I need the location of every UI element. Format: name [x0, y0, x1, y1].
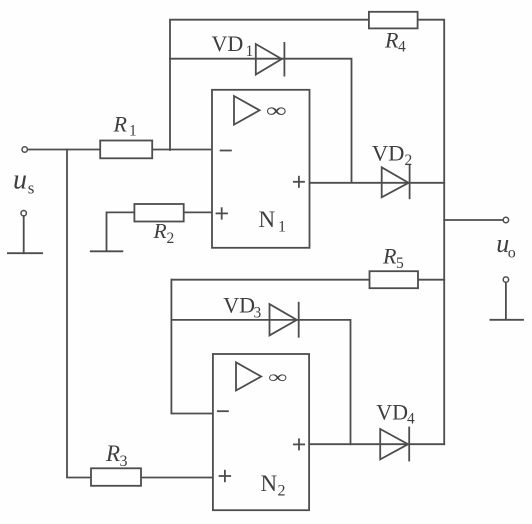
svg-text:4: 4	[398, 38, 406, 55]
label R3	[105, 441, 128, 470]
wire: input vertical down to R3	[67, 150, 213, 478]
svg-text:5: 5	[396, 255, 404, 272]
ground: left source ground	[8, 211, 42, 254]
svg-text:4: 4	[407, 410, 415, 427]
wire: output tap to uo terminal	[444, 219, 503, 221]
ground: R2 ground	[91, 250, 123, 252]
pin: N2 output plus sign	[294, 439, 304, 449]
resistor R2	[134, 204, 183, 222]
op-amp U1 triangle symbol	[234, 96, 260, 125]
node: us input terminal	[22, 147, 27, 152]
label infinity N2	[268, 367, 287, 387]
svg-text:VD: VD	[223, 292, 255, 317]
label R1	[113, 112, 137, 140]
svg-text:2: 2	[278, 483, 286, 500]
wire: R2 branch to N1 non-inverting input	[107, 212, 213, 251]
pin: N2 non-inverting input plus sign	[220, 471, 231, 482]
label infinity N1	[266, 100, 287, 122]
resistor R3	[91, 468, 141, 486]
svg-text:∞: ∞	[266, 100, 287, 122]
resistor R4	[369, 12, 418, 29]
svg-text:R: R	[382, 244, 397, 269]
label us	[13, 165, 34, 198]
svg-text:N: N	[261, 471, 278, 496]
label R4	[384, 28, 406, 56]
svg-text:3: 3	[120, 453, 128, 470]
svg-text:∞: ∞	[268, 367, 287, 387]
diode VD2	[382, 165, 410, 198]
label uo	[496, 229, 516, 262]
diode VD3	[270, 303, 299, 337]
svg-text:3: 3	[254, 305, 262, 322]
resistor R5	[370, 271, 419, 288]
pin: N2 inverting input minus sign	[218, 410, 228, 412]
svg-text:R: R	[113, 112, 128, 137]
svg-text:u: u	[13, 165, 27, 196]
svg-text:VD: VD	[376, 400, 408, 425]
label VD3	[223, 292, 261, 321]
svg-text:R: R	[105, 441, 120, 466]
wire: top feedback wire from node A to R4 and right bus	[170, 20, 444, 445]
label VD2	[372, 140, 412, 169]
wire: N2 output to VD4 and right bus	[309, 443, 444, 445]
svg-text:1: 1	[129, 123, 137, 140]
svg-text:2: 2	[405, 152, 413, 169]
svg-text:N: N	[259, 207, 276, 232]
wire: N1 output to VD2 and right bus	[310, 182, 445, 184]
label R2	[153, 219, 175, 247]
pin: N1 non-inverting input plus sign	[217, 208, 228, 219]
label VD4	[376, 400, 415, 428]
wire: VD3 anode wire	[171, 320, 350, 444]
label R5	[382, 244, 404, 273]
ground: right output ground	[490, 277, 523, 320]
svg-text:o: o	[508, 245, 516, 262]
svg-text:1: 1	[278, 219, 286, 236]
svg-text:VD: VD	[372, 140, 405, 165]
svg-text:s: s	[28, 179, 35, 198]
label N1	[259, 207, 287, 236]
svg-text:R: R	[153, 219, 167, 243]
op-amp U2 box N2	[213, 354, 309, 510]
node: uo output terminal	[503, 217, 508, 222]
wire: R5 feedback wire lower stage	[171, 279, 444, 281]
diode VD1	[256, 43, 285, 76]
diode VD4	[380, 428, 409, 461]
label N2	[261, 471, 286, 500]
svg-text:R: R	[384, 28, 399, 53]
wire: VD1 anode wire from node A vertical	[170, 59, 352, 183]
resistor R1	[100, 141, 152, 159]
wire: input wire us to N1 inverting input through R1	[27, 149, 212, 151]
svg-text:2: 2	[167, 230, 175, 247]
svg-text:VD: VD	[212, 31, 244, 56]
pin: N1 output plus sign	[294, 177, 304, 187]
svg-text:1: 1	[246, 43, 254, 60]
op-amp U1 box N1	[212, 90, 310, 248]
wire: lower mid vertical to N2 inverting input	[171, 280, 213, 414]
label VD1	[212, 31, 254, 60]
op-amp U2 triangle symbol	[236, 362, 261, 390]
pin: N1 inverting input minus sign	[221, 150, 231, 152]
